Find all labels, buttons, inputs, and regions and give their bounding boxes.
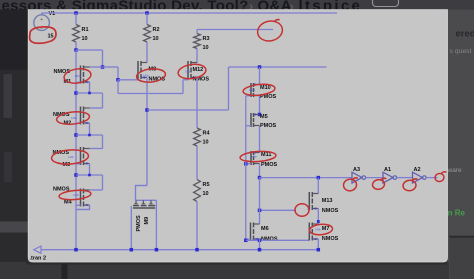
red annotation ellipse around M12 (177, 63, 207, 81)
red annotation ellipse around M11 (240, 150, 277, 162)
transistor M5 bottom stub (254, 125, 260, 127)
wire gate net down to cross wire (117, 80, 119, 94)
right column seam line (450, 236, 474, 238)
wire output row horizontal to A3 (260, 177, 353, 179)
left page column background (0, 10, 28, 279)
transistor M12 source stub (191, 77, 197, 79)
transistor M1 drain stub (84, 66, 90, 68)
buffer A3 triangle (352, 172, 362, 183)
wire R5 bottom lead to ground rail (196, 202, 198, 250)
wire M4 drain connection (90, 189, 103, 191)
wire PMOS column M10-M5 segment (259, 96, 261, 115)
resistor R1 body (73, 25, 80, 43)
wire M4 drain loop vertical (102, 175, 104, 190)
junction output row / M13 branch (317, 176, 321, 180)
junction ground rail / M7 source (317, 248, 321, 252)
junction chain node above M2 (74, 91, 78, 95)
wire M2 source to M3 node (89, 123, 91, 135)
wire R1 node to M1 drain loop horizontal (76, 49, 103, 51)
wire gate net vertical to M8 gate level (117, 67, 119, 80)
right column area below seam (450, 238, 474, 279)
svg-text:PMOS: PMOS (136, 215, 142, 232)
junction M3 source on M4 node (88, 174, 91, 177)
transistor M8 source stub (141, 77, 147, 79)
transistor M13 channel segments (311, 192, 313, 197)
transistor M13 source arrow (313, 207, 316, 210)
wire R4 to R5 (196, 146, 198, 180)
wire M1 drain connection (90, 66, 103, 68)
transistor M10 top stub (254, 84, 260, 86)
transistor M12 source arrow (192, 76, 195, 79)
wire M2 drain loop vertical (102, 93, 104, 108)
wire upper horizontal net to dangling end (229, 66, 327, 68)
browser page title strip (0, 0, 474, 10)
transistor M12 drain stub (191, 62, 197, 64)
transistor M4 source arrow (84, 204, 87, 207)
red annotation loop at A2 input (402, 179, 419, 192)
wire diode-chain main vertical (M1-M4 bias string) (75, 50, 77, 250)
svg-text:10: 10 (82, 36, 88, 42)
right page column background (448, 10, 474, 279)
svg-text:M13: M13 (322, 198, 333, 204)
junction chain node above M4 (74, 173, 78, 177)
red annotation ellipse around M2 (56, 110, 90, 125)
transistor M1 gate bar (80, 66, 82, 84)
svg-text:15: 15 (48, 34, 54, 40)
wire M13 source to M7 drain (317, 209, 319, 225)
transistor M9 gate bar (133, 207, 155, 209)
wire M8 source column jog to M9 (136, 186, 148, 201)
svg-text:10: 10 (203, 45, 209, 51)
wire M6 drain column vertical (259, 178, 261, 224)
red annotation ellipse around M4 (59, 189, 92, 201)
junction top rail / R2 (145, 11, 149, 15)
wire M1 gate lead (76, 81, 81, 83)
wire M1 drain node to gate net (103, 66, 119, 68)
transistor M8 gate bar (137, 61, 139, 79)
svg-text:NMOS: NMOS (261, 237, 278, 243)
transistor M4 drain stub (84, 189, 90, 191)
transistor M1 source stub (84, 81, 90, 83)
wire V1 top lead (41, 13, 43, 15)
svg-text:+: + (40, 17, 43, 23)
junction M11 gate / gate chain (244, 162, 248, 166)
junction M8 source / mirror wire (145, 108, 149, 112)
svg-text:R5: R5 (203, 182, 210, 188)
transistor M10 gate bar (250, 83, 252, 97)
svg-text:.tran 2: .tran 2 (30, 256, 47, 262)
svg-text:M3: M3 (63, 162, 71, 168)
buffer A1 output bubble (393, 176, 397, 180)
svg-text:s quest: s quest (450, 48, 472, 55)
svg-text:ware: ware (447, 167, 462, 174)
transistor M2 gate bar (80, 107, 82, 125)
svg-text:140n: 140n (68, 155, 74, 159)
svg-text:R1: R1 (82, 27, 89, 33)
svg-text:M11: M11 (261, 152, 271, 158)
wire M3 drain connection (90, 148, 103, 150)
junction ground rail / bias chain (74, 248, 78, 252)
wire R3 bottom to M12 drain (196, 49, 198, 63)
transistor M5 channel segments (253, 113, 255, 117)
left column upper dark area (0, 10, 28, 70)
resistor R3 body (194, 34, 201, 49)
left column lighter band (0, 222, 28, 233)
buffer A1 triangle (383, 172, 393, 183)
wire M3 drain loop vertical (102, 135, 104, 149)
svg-text:A3: A3 (353, 167, 360, 173)
junction M13 source / M7 drain (317, 220, 320, 223)
transistor M11 source arrow (255, 151, 258, 153)
left column thumbnail marks (4, 74, 13, 118)
transistor M6 source stub (254, 238, 260, 240)
wire M6-M7 gate mirror horizontal (246, 239, 309, 241)
transistor M11 channel segments (253, 151, 255, 155)
svg-text:140n: 140n (251, 155, 257, 159)
wire M2 drain connection (90, 107, 103, 109)
transistor M8 source arrow (142, 76, 145, 79)
ground rail left arrow flag (34, 246, 41, 253)
wire PMOS column top segment (259, 67, 261, 85)
red annotation loop at A1 input (372, 178, 388, 190)
wire M11 source to output node (259, 164, 261, 178)
wire A1 output to A2 input (397, 177, 413, 179)
transistor M2 source stub (84, 122, 90, 124)
transistor M2 drain stub (84, 107, 90, 109)
wire M7 source to ground rail (317, 239, 319, 250)
wire M2 gate lead (76, 122, 81, 124)
svg-text:140n: 140n (143, 74, 149, 78)
svg-text:140n: 140n (185, 70, 191, 74)
transistor M8 channel segments (140, 61, 142, 66)
svg-text:140n: 140n (71, 116, 77, 120)
junction gate chain / mirror wire (244, 239, 248, 243)
svg-text:M9: M9 (144, 217, 150, 225)
screenshot drop shadow (26, 262, 447, 265)
transistor M7 drain stub (312, 223, 318, 225)
wire M8 gate lead (118, 79, 138, 81)
bottom page area below screenshot (0, 262, 449, 279)
wire M12 source down to R4 (196, 78, 198, 129)
transistor M7 source arrow (313, 238, 316, 241)
transistor M7 channel segments (311, 223, 313, 228)
svg-text:A1: A1 (384, 167, 391, 173)
svg-text:V1: V1 (49, 11, 56, 17)
transistor M10 channel segments (253, 83, 255, 87)
transistor M4 channel segments (83, 189, 85, 194)
wire top supply rail (42, 12, 337, 14)
transistor M11 gate bar (250, 151, 252, 165)
junction M1 drain node (101, 65, 105, 69)
wire gate chain vertical (245, 96, 247, 241)
wire M13 gate stub (308, 209, 311, 211)
wire R1 bottom lead (75, 42, 77, 50)
junction R1 bottom node (74, 48, 78, 52)
red annotation around V1 minus terminal and value (29, 26, 57, 44)
wire M4 gate lead (76, 204, 81, 206)
wire M9 right pin to ground rail (155, 200, 157, 249)
junction ground rail / R5 (195, 248, 199, 252)
buffer A3 output bubble (362, 176, 366, 180)
transistor M3 gate bar (80, 147, 82, 165)
transistor M6 gate bar (250, 223, 252, 241)
junction ground rail / M9 right pin (155, 248, 159, 252)
buffer A2 triangle (413, 172, 423, 183)
bottom dark vertical bar (62, 264, 68, 279)
wire riser vertical to upper net (228, 67, 230, 110)
junction ground rail / M6 source (258, 248, 262, 252)
red annotation loop at A3 input (343, 178, 360, 192)
transistor M8 drain stub (141, 62, 147, 64)
resistor R2 body (144, 25, 151, 43)
wire ground return rail (41, 249, 318, 251)
schematic canvas (LTspice gray background) (28, 10, 447, 262)
transistor M13 source stub (312, 208, 318, 210)
wire M3 drain loop horizontal (76, 134, 103, 136)
junction M6 source on mirror wire (258, 239, 262, 243)
wire M8 source column down (146, 78, 148, 186)
wire R3 top horizontal (dangling net circled) (197, 29, 273, 31)
wire M1 drain loop vertical (102, 50, 104, 67)
svg-text:PMOS: PMOS (260, 123, 277, 129)
wire M11 gate lead (246, 163, 251, 165)
resistor R4 body (194, 128, 201, 146)
transistor M3 source arrow (84, 162, 87, 165)
wire M6 source to ground rail (259, 239, 261, 250)
transistor M13 gate bar (308, 192, 310, 210)
wire R2 bottom to M8 drain (146, 42, 148, 63)
junction top rail / R1 (74, 11, 78, 15)
svg-text:M12: M12 (193, 67, 204, 73)
wire M9 pin header horizontal (136, 199, 157, 201)
transistor M3 source stub (84, 163, 90, 165)
wire A2 output dangling end (426, 177, 437, 179)
junction gate net at M8 (116, 78, 120, 82)
wire R2 top lead (146, 13, 148, 25)
junction M2 source on M3 node (88, 134, 91, 137)
transistor M7 gate bar (308, 223, 310, 241)
junction ground rail / M9 left pin (130, 248, 134, 252)
transistor M12 gate bar (187, 61, 189, 79)
wire gate net horizontal to M12 (118, 93, 183, 95)
svg-text:PMOS: PMOS (261, 162, 278, 168)
transistor M13 drain stub (312, 193, 318, 195)
wire M3 source to M4 node (89, 164, 91, 176)
transistor M4 source stub (84, 204, 90, 206)
transistor M12 channel segments (190, 61, 192, 66)
red annotation ellipse around M10 (243, 83, 276, 97)
junction chain node above M3 (74, 133, 78, 137)
wire M3 gate lead (76, 163, 81, 165)
wire M1 source to M2 node (89, 82, 91, 93)
junction M1 source on M2 node (88, 92, 91, 95)
svg-text:A2: A2 (414, 167, 421, 173)
junction output node (258, 176, 262, 180)
transistor M11 top stub (254, 152, 260, 154)
transistor M1 channel segments (83, 66, 85, 71)
wire M4 drain loop horizontal (76, 174, 103, 176)
junction M6 drain column / M13 gate net (258, 209, 262, 213)
transistor M3 drain stub (84, 148, 90, 150)
svg-text:M7: M7 (322, 226, 330, 232)
transistor M1 source arrow (84, 81, 87, 84)
transistor M5 source arrow (255, 113, 258, 115)
transistor M5 top stub (254, 114, 260, 116)
svg-text:M6: M6 (261, 226, 269, 232)
transistor M5 gate bar (250, 113, 252, 127)
svg-text:R3: R3 (203, 36, 210, 42)
page tag badge outline (373, 0, 399, 7)
red annotation ellipse around M3 (51, 149, 89, 166)
transistor M2 channel segments (83, 107, 85, 112)
transistor M4 gate bar (80, 189, 82, 207)
transistor M6 channel segments (253, 223, 255, 228)
red annotation circle around M13 gate gap (295, 204, 309, 216)
transistor M7 source stub (312, 238, 318, 240)
svg-text:ered: ered (456, 29, 474, 40)
voltage source V1 circle (34, 15, 50, 31)
transistor M11 bottom stub (254, 163, 260, 165)
transistor M9 pin stubs (135, 200, 137, 204)
svg-text:10: 10 (153, 36, 159, 42)
buffer A2 output bubble (423, 176, 427, 180)
svg-text:NMOS: NMOS (322, 208, 339, 214)
transistor M2 source arrow (84, 122, 87, 125)
wire M4 source jog (76, 205, 90, 210)
junction M10 source / M5 drain (258, 113, 262, 117)
red annotation ellipse around M7 (309, 223, 333, 235)
transistor M6 drain stub (254, 223, 260, 225)
svg-text:M5: M5 (260, 114, 268, 120)
svg-text:R4: R4 (203, 131, 211, 137)
svg-text:R2: R2 (153, 27, 160, 33)
red annotation circle around R3 dangling wire end (256, 19, 285, 43)
wire R1 top lead (75, 13, 77, 25)
red annotation ellipse around M1 (63, 67, 92, 85)
wire R3 top lead (196, 30, 198, 34)
svg-text:140n: 140n (73, 193, 79, 197)
svg-text:140n: 140n (249, 88, 255, 92)
svg-text:10: 10 (203, 140, 209, 146)
wire gate net vertical up to M12 gate (182, 80, 184, 94)
wire M10 gate lead (246, 95, 251, 97)
wire M2 drain loop horizontal (76, 92, 103, 94)
svg-text:140n: 140n (315, 228, 321, 232)
transistor M3 channel segments (83, 147, 85, 152)
svg-text:140n: 140n (75, 74, 81, 78)
wire M12 gate lead (183, 79, 189, 81)
transistor M10 source arrow (255, 83, 258, 85)
wire A3 output to A1 input (366, 177, 383, 179)
wire mirror horizontal M8 source to riser (147, 109, 229, 111)
svg-text:NMOS: NMOS (322, 236, 339, 242)
svg-text:M10: M10 (260, 85, 271, 91)
wire M9 left pin to ground rail (130, 206, 132, 250)
svg-text:10: 10 (203, 191, 209, 197)
wire M7 gate riser (308, 239, 310, 240)
wire PMOS column M5-M11 segment (259, 126, 261, 153)
red annotation circle at A2 output dangling end (434, 171, 448, 182)
junction upper net / PMOS column (258, 65, 262, 69)
transistor M10 bottom stub (254, 95, 260, 97)
red annotation ellipse around M8 (136, 68, 166, 84)
wire M13 gate net from M6 drain column (gap circled) (260, 209, 297, 211)
resistor R5 body (194, 180, 201, 202)
transistor M6 source arrow (254, 238, 257, 241)
transistor M9 channel segments (133, 205, 139, 207)
wire M13 drain branch vertical (317, 178, 319, 194)
wire M5 gate lead (246, 125, 251, 127)
wire M6 gate lead (246, 238, 251, 240)
